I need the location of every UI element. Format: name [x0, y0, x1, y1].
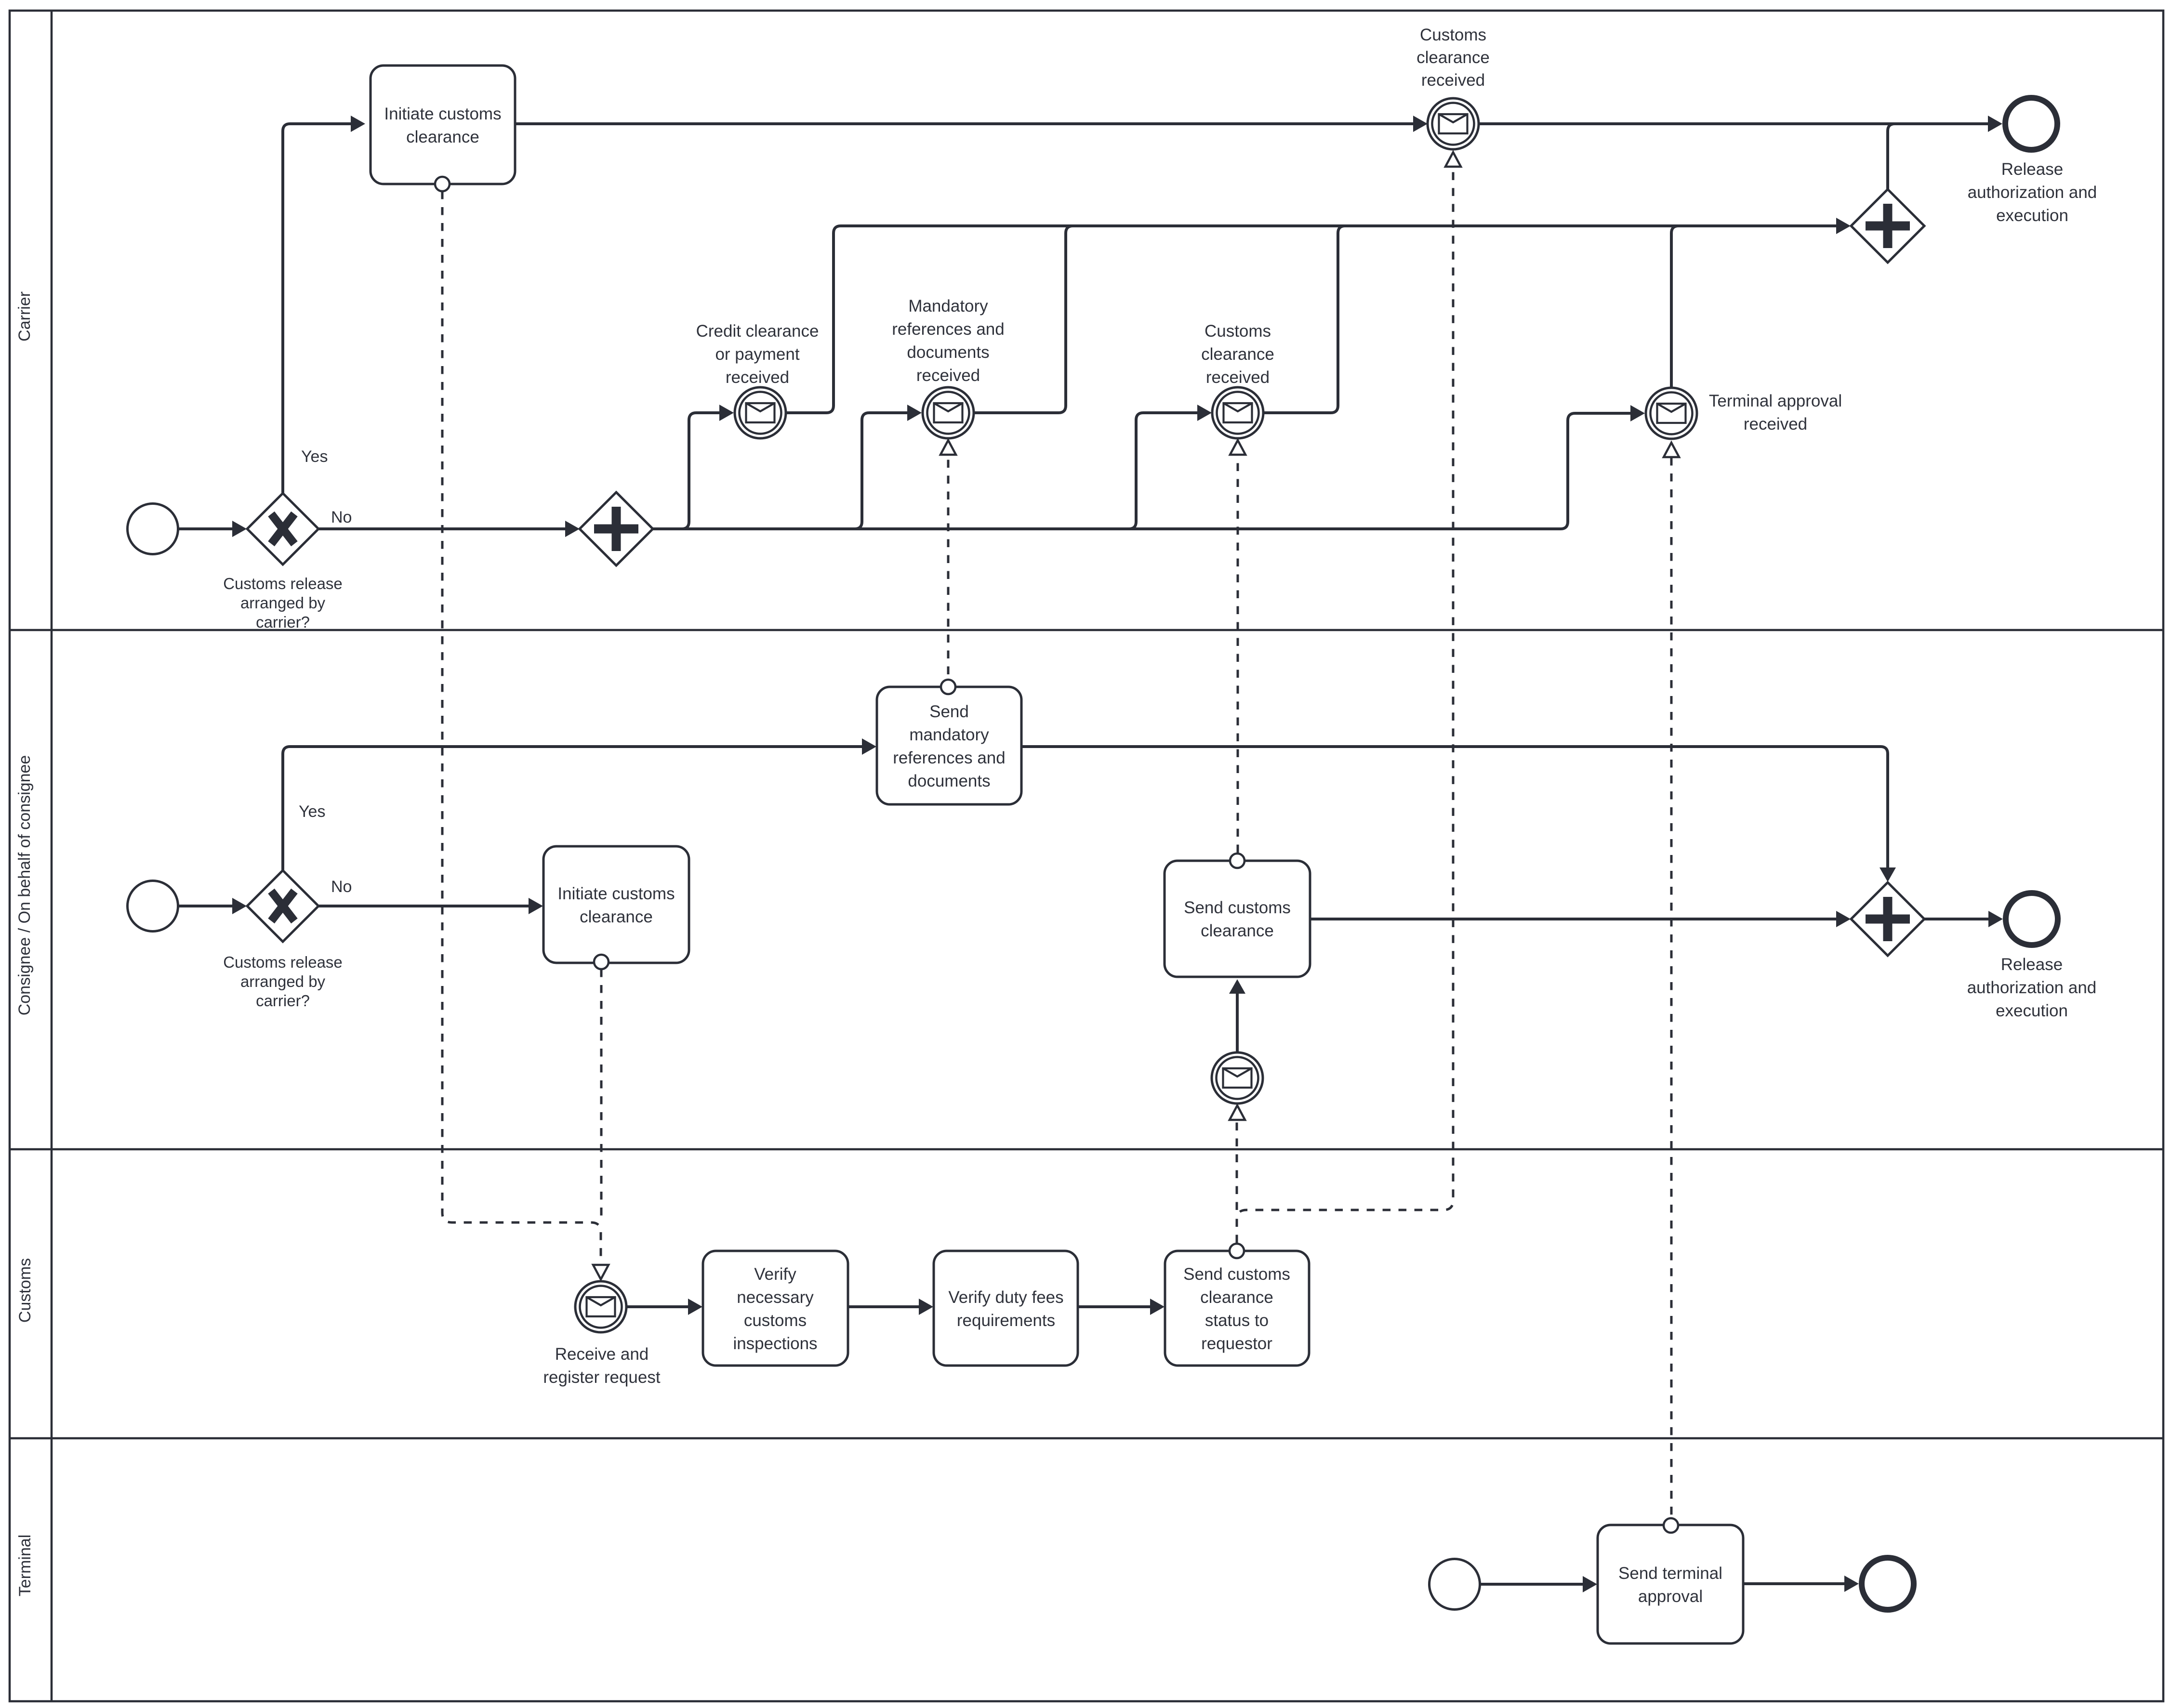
svg-text:documents: documents [907, 343, 989, 362]
svg-text:necessary: necessary [737, 1288, 814, 1307]
svg-text:Verify: Verify [754, 1265, 796, 1284]
svg-text:Mandatory: Mandatory [908, 297, 988, 315]
svg-text:No: No [331, 878, 352, 896]
svg-text:received: received [1206, 368, 1270, 387]
svg-text:Yes: Yes [299, 802, 325, 821]
svg-text:clearance: clearance [406, 128, 479, 146]
svg-text:carrier?: carrier? [256, 992, 310, 1010]
svg-text:Yes: Yes [301, 447, 328, 466]
svg-text:Customs: Customs [1420, 26, 1486, 44]
svg-text:Credit clearance: Credit clearance [696, 322, 819, 341]
svg-text:references and: references and [893, 749, 1005, 767]
svg-text:Receive and: Receive and [555, 1345, 649, 1364]
svg-text:references and: references and [892, 320, 1004, 339]
svg-text:received: received [1744, 415, 1807, 434]
svg-text:received: received [726, 368, 789, 387]
svg-text:mandatory: mandatory [909, 725, 989, 744]
svg-text:arranged by: arranged by [240, 972, 326, 990]
svg-text:inspections: inspections [733, 1334, 817, 1353]
svg-text:approval: approval [1638, 1587, 1703, 1606]
svg-text:Release: Release [2001, 160, 2063, 179]
svg-text:clearance: clearance [580, 907, 653, 926]
svg-text:Initiate customs: Initiate customs [557, 884, 675, 903]
svg-text:Terminal approval: Terminal approval [1709, 392, 1842, 410]
svg-text:clearance: clearance [1200, 1288, 1273, 1307]
svg-text:customs: customs [744, 1311, 807, 1330]
svg-text:or payment: or payment [715, 345, 799, 364]
svg-text:Initiate customs: Initiate customs [384, 105, 501, 123]
svg-text:documents: documents [908, 772, 990, 790]
svg-text:authorization and: authorization and [1968, 183, 2097, 202]
svg-text:No: No [331, 508, 352, 526]
svg-text:Customs: Customs [16, 1258, 34, 1323]
svg-text:Carrier: Carrier [15, 291, 34, 342]
svg-text:Verify duty fees: Verify duty fees [948, 1288, 1063, 1307]
svg-text:execution: execution [1996, 1001, 2068, 1020]
svg-text:requestor: requestor [1201, 1334, 1272, 1353]
svg-text:Customs release: Customs release [223, 953, 343, 971]
svg-text:authorization and: authorization and [1967, 978, 2097, 997]
svg-text:arranged by: arranged by [240, 594, 326, 612]
svg-text:status to: status to [1205, 1311, 1269, 1330]
svg-text:Terminal: Terminal [16, 1535, 34, 1596]
svg-text:register request: register request [543, 1368, 660, 1387]
svg-text:clearance: clearance [1201, 345, 1274, 364]
svg-text:Customs: Customs [1205, 322, 1271, 341]
svg-text:Customs release: Customs release [223, 575, 343, 592]
svg-text:requirements: requirements [957, 1311, 1055, 1330]
svg-text:Release: Release [2001, 955, 2063, 974]
svg-text:received: received [916, 366, 980, 385]
svg-text:Consignee / On behalf of consi: Consignee / On behalf of consignee [15, 755, 34, 1016]
svg-text:Send customs: Send customs [1184, 898, 1291, 917]
svg-text:Send customs: Send customs [1183, 1265, 1290, 1284]
svg-text:execution: execution [1996, 206, 2068, 225]
svg-text:clearance: clearance [1201, 921, 1274, 940]
svg-text:carrier?: carrier? [256, 613, 310, 631]
svg-text:Send terminal: Send terminal [1618, 1564, 1722, 1583]
svg-text:clearance: clearance [1416, 48, 1490, 67]
svg-text:Send: Send [929, 702, 969, 721]
svg-text:received: received [1421, 71, 1485, 90]
